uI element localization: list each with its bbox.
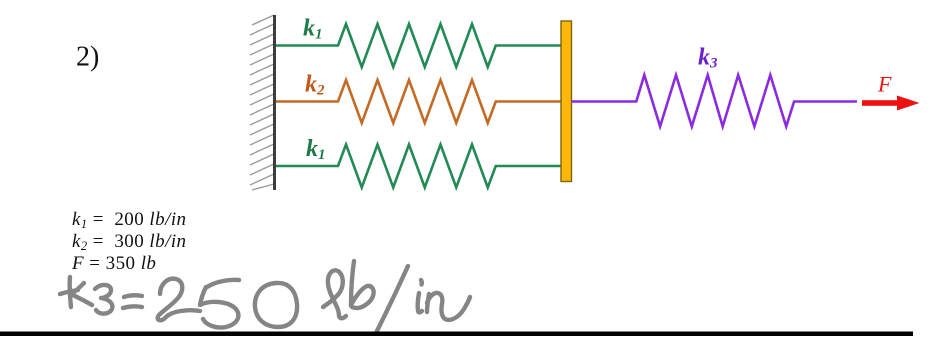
hw i dot bbox=[419, 280, 424, 285]
svg-text:k1: k1 bbox=[306, 136, 326, 163]
wall line bbox=[273, 15, 276, 190]
hw i bbox=[418, 293, 422, 312]
wall hatching bbox=[250, 15, 274, 190]
svg-text:k1: k1 bbox=[303, 16, 323, 43]
hw l bbox=[323, 270, 346, 318]
hw K stem bbox=[70, 277, 71, 307]
hw 3 bbox=[95, 285, 112, 314]
handwritten k3 = 250 lb/in bbox=[60, 261, 470, 333]
spring k2 middle bbox=[276, 80, 561, 123]
spring k1 top bbox=[276, 24, 561, 67]
hw K crossbar bbox=[60, 290, 78, 294]
svg-text:k2 = 300 lb/in: k2 = 300 lb/in bbox=[72, 231, 187, 253]
force arrow F bbox=[862, 96, 920, 111]
spring k1 bottom bbox=[276, 145, 561, 188]
svg-text:k2: k2 bbox=[305, 72, 325, 99]
hw 0 bbox=[255, 283, 297, 327]
hw = top bbox=[124, 295, 142, 297]
svg-text:k1 = 200 lb/in: k1 = 200 lb/in bbox=[72, 209, 187, 231]
hw b stem bbox=[351, 261, 354, 305]
bottom rule bbox=[0, 332, 913, 337]
svg-text:2): 2) bbox=[76, 42, 99, 73]
hw 5 bowl bbox=[200, 287, 238, 328]
rigid bar (gold) bbox=[561, 21, 572, 182]
hw n bbox=[427, 293, 470, 320]
hw = bottom bbox=[123, 306, 142, 308]
hw b bowl bbox=[351, 286, 374, 308]
svg-text:F: F bbox=[877, 72, 892, 97]
svg-text:k3: k3 bbox=[698, 45, 718, 72]
svg-text:F = 350 lb: F = 350 lb bbox=[71, 253, 156, 274]
hw 5 top bbox=[207, 280, 239, 287]
hw slash bbox=[376, 266, 408, 333]
hw K arm bbox=[71, 283, 92, 305]
hw 2 bbox=[158, 279, 200, 321]
spring k3 (purple) bbox=[572, 75, 858, 127]
